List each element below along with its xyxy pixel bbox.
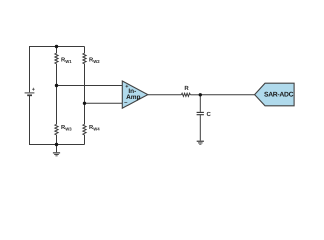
svg-text:Amp: Amp [126, 94, 140, 101]
svg-text:+: + [32, 87, 35, 93]
resistor R [181, 93, 190, 96]
svg-text:RW2: RW2 [89, 57, 100, 64]
ground capacitor [197, 141, 204, 145]
wire column RW3 lower [56, 135, 58, 145]
node junction bottom ground [55, 143, 58, 146]
node A junction [55, 84, 58, 87]
svg-text:RW1: RW1 [61, 57, 72, 64]
wire column left middle [56, 64, 58, 125]
wire column RW1 upper [56, 47, 58, 54]
svg-text:C: C [207, 111, 212, 118]
resistor RW4 [83, 124, 86, 135]
wire node A to in-amp plus input [57, 85, 123, 87]
node junction RC [199, 93, 202, 96]
ground bridge [53, 152, 60, 156]
svg-text:RW4: RW4 [89, 125, 100, 132]
wire column RW2 upper [84, 47, 86, 54]
svg-text:RW3: RW3 [61, 125, 72, 132]
node junction top rail [55, 45, 58, 48]
wire capacitor upper lead [199, 95, 201, 112]
resistor RW2 [83, 53, 86, 64]
wire column RW4 lower [84, 135, 86, 145]
wire node to SAR-ADC [200, 94, 254, 96]
wire left rail lower + bottom rail [30, 96, 85, 145]
svg-text:R: R [184, 85, 189, 92]
resistor RW1 [55, 53, 58, 64]
wire top rail [30, 47, 85, 93]
op-amp in-amp U1 [122, 81, 148, 108]
wire in-amp output [148, 94, 182, 96]
node B junction [83, 102, 86, 105]
wire R to node [190, 94, 200, 96]
block SAR-ADC U2 [255, 83, 295, 106]
wire node B to in-amp minus input [85, 102, 123, 104]
capacitor C plates [197, 112, 204, 114]
battery B1 [25, 87, 35, 95]
wire ground stub bridge [56, 145, 58, 153]
wire capacitor lower lead [199, 115, 201, 141]
resistor RW3 [55, 124, 58, 135]
wire column right middle [84, 64, 86, 125]
svg-text:SAR-ADC: SAR-ADC [264, 92, 294, 99]
